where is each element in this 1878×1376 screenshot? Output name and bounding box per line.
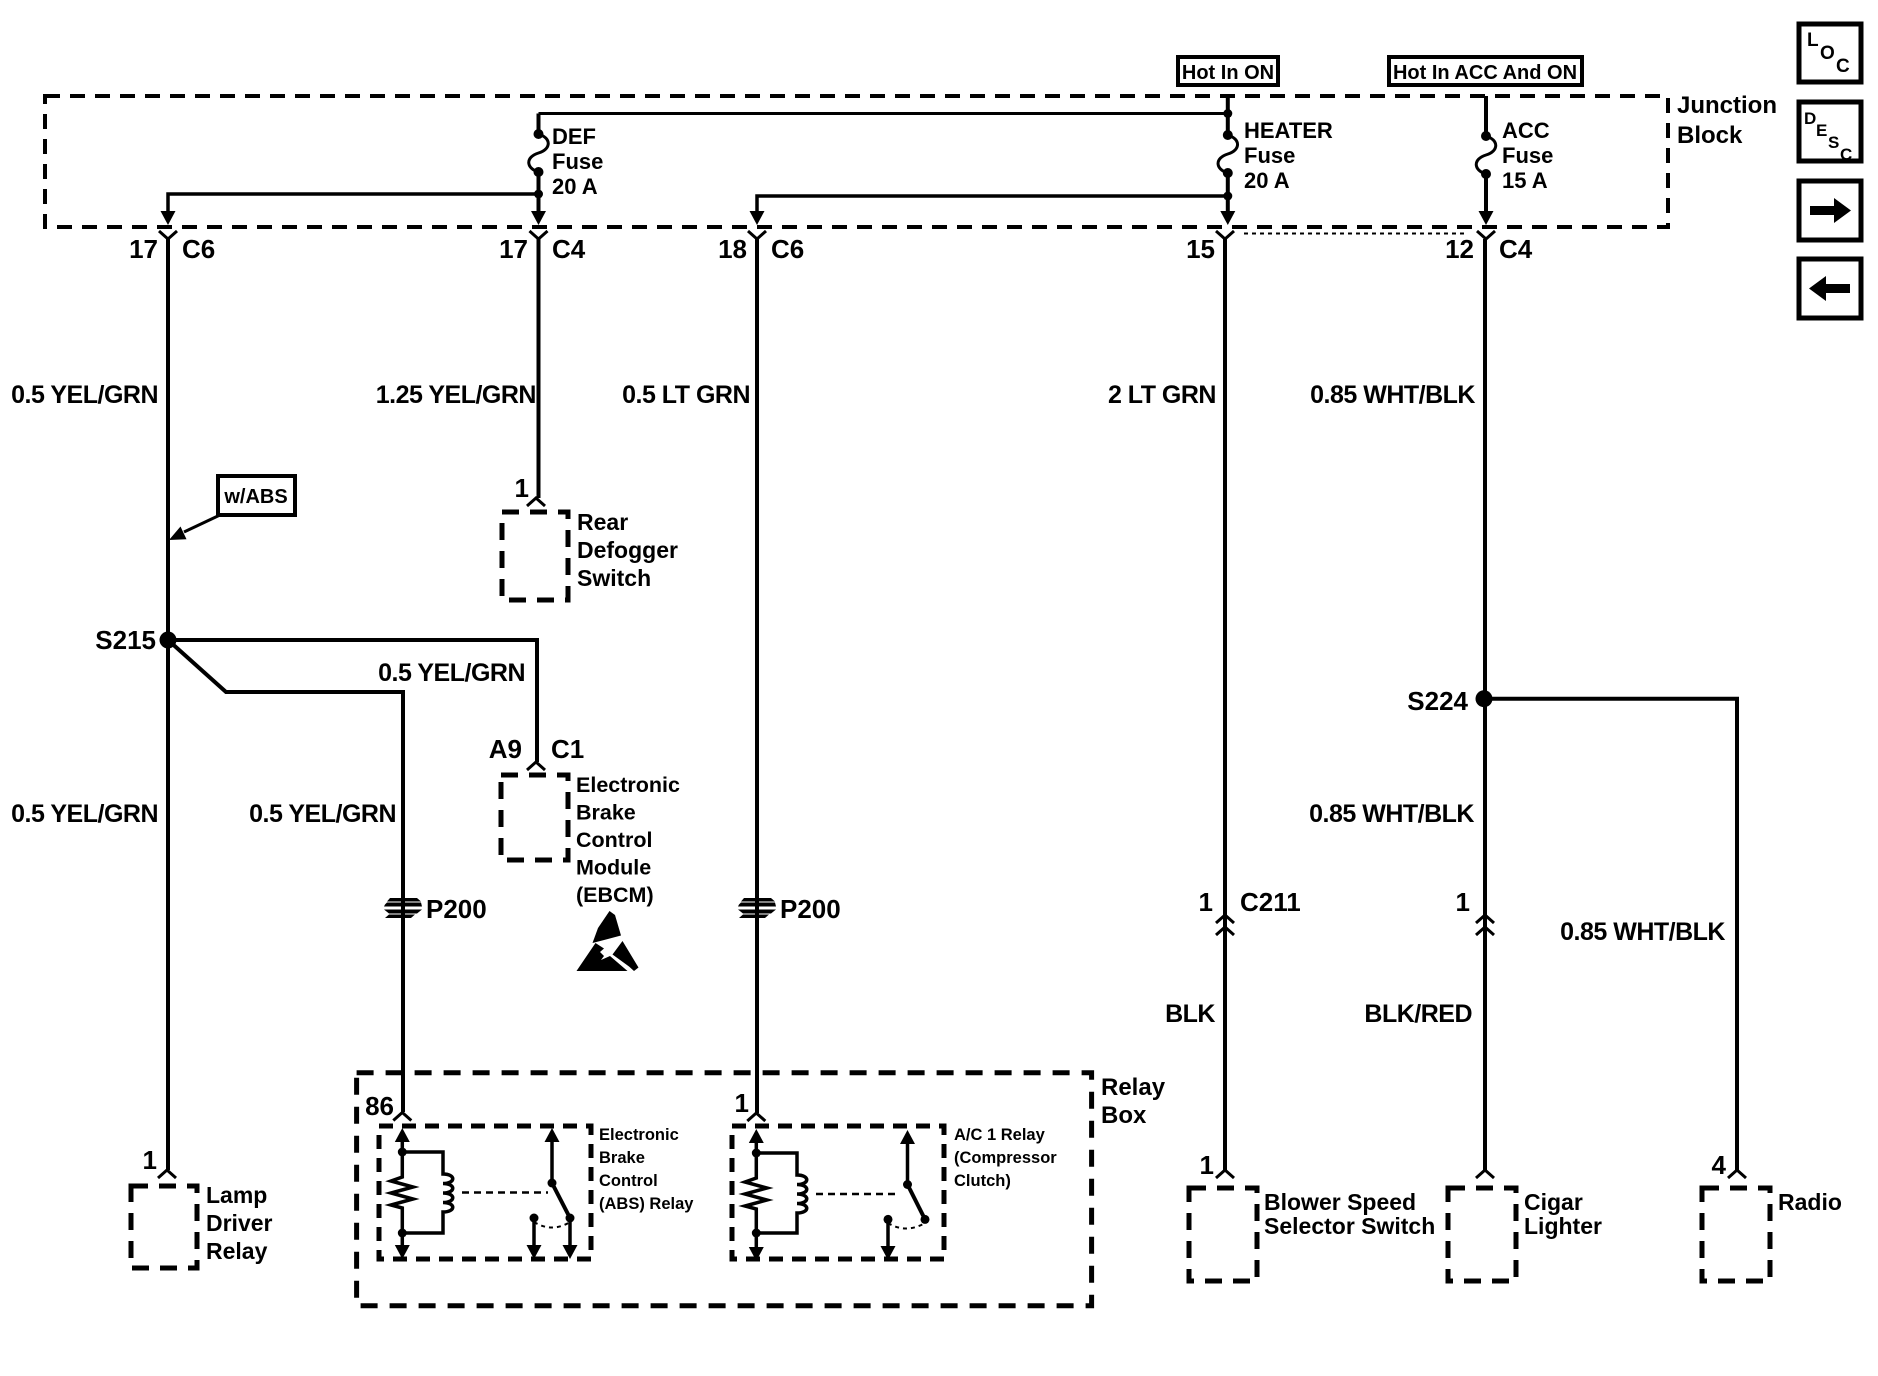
svg-text:0.85 WHT/BLK: 0.85 WHT/BLK — [1309, 800, 1474, 828]
icon LOC — [1799, 24, 1861, 82]
svg-text:0.85 WHT/BLK: 0.85 WHT/BLK — [1560, 918, 1725, 946]
icon arrow right — [1799, 181, 1861, 240]
svg-text:1: 1 — [735, 1088, 749, 1118]
ABS relay inner box — [379, 1126, 591, 1259]
w/ABS callout — [169, 476, 295, 540]
svg-text:C: C — [1836, 56, 1850, 77]
node ABS coil top — [398, 1148, 407, 1157]
wire ACC drop — [1484, 96, 1488, 137]
svg-text:S215: S215 — [95, 625, 156, 655]
svg-text:15: 15 — [1186, 234, 1215, 264]
connector 1 lamp driver relay — [158, 1170, 176, 1178]
svg-text:ACC: ACC — [1502, 118, 1550, 143]
connector 1 rear defogger — [527, 498, 545, 506]
svg-text:1: 1 — [1199, 887, 1213, 917]
connector cigar lighter — [1476, 1170, 1494, 1178]
svg-text:Junction: Junction — [1677, 92, 1777, 119]
svg-text:20 A: 20 A — [552, 174, 598, 199]
ABS right contact arrow — [568, 1218, 572, 1245]
hot in on tag — [1178, 57, 1278, 85]
svg-text:C6: C6 — [771, 234, 804, 264]
connector 86 — [393, 1113, 411, 1121]
svg-text:C4: C4 — [1499, 234, 1533, 264]
svg-text:E: E — [1816, 121, 1827, 140]
connector 1 inline cigar — [1476, 915, 1494, 935]
cigar lighter box — [1448, 1188, 1516, 1281]
svg-text:A9: A9 — [489, 734, 522, 764]
svg-text:C: C — [1840, 145, 1852, 164]
svg-text:Module: Module — [576, 856, 651, 880]
ABS left contact arrow — [532, 1218, 536, 1245]
svg-text:0.5 YEL/GRN: 0.5 YEL/GRN — [11, 381, 158, 409]
ABS switch blade — [552, 1183, 570, 1218]
svg-text:Block: Block — [1677, 122, 1743, 149]
connector 1 AC relay — [747, 1113, 765, 1121]
svg-text:Electronic: Electronic — [599, 1126, 679, 1144]
fuse ACC 15A — [1476, 131, 1496, 179]
grommet P200 left — [384, 898, 422, 918]
arrow ACC out — [1479, 211, 1494, 225]
svg-text:C211: C211 — [1240, 887, 1301, 917]
svg-text:17: 17 — [129, 234, 158, 264]
radio box — [1702, 1188, 1770, 1281]
wire ACC below fuse — [1484, 174, 1488, 213]
node ABS left contact — [530, 1214, 539, 1223]
fuse DEF 20A — [529, 129, 549, 177]
AC switch common arrow — [900, 1130, 915, 1144]
wire W1 lower — [166, 640, 170, 1170]
svg-text:0.85 WHT/BLK: 0.85 WHT/BLK — [1310, 381, 1475, 409]
wire W3 lower — [755, 239, 759, 1113]
node AC switch pivot — [903, 1180, 912, 1189]
node AC left contact — [884, 1215, 893, 1224]
svg-text:Brake: Brake — [599, 1149, 645, 1167]
wire S215 to EBCM branch — [168, 640, 537, 762]
wire DEF feed (top horizontal) — [539, 112, 1228, 115]
svg-text:0.5 YEL/GRN: 0.5 YEL/GRN — [11, 800, 158, 828]
svg-text:(EBCM): (EBCM) — [576, 883, 654, 907]
svg-text:Switch: Switch — [577, 565, 651, 591]
arrow HEATER out — [1220, 211, 1235, 225]
svg-text:Fuse: Fuse — [1244, 143, 1295, 168]
icon arrow left — [1799, 259, 1861, 318]
svg-text:Electronic: Electronic — [576, 773, 680, 797]
wire W2 to rear defogger — [537, 239, 541, 498]
svg-text:Clutch): Clutch) — [954, 1172, 1011, 1190]
ESD symbol — [577, 911, 639, 971]
coil ABS — [402, 1152, 452, 1233]
AC relay inner box — [732, 1126, 944, 1259]
junction block — [45, 96, 1668, 227]
wire W1 upper — [166, 239, 170, 640]
wire DEF below fuse — [537, 172, 541, 213]
rear defogger switch — [502, 512, 568, 600]
svg-text:1: 1 — [1456, 887, 1470, 917]
svg-text:P200: P200 — [780, 894, 841, 924]
icon DESC — [1799, 102, 1861, 164]
svg-text:0.5 YEL/GRN: 0.5 YEL/GRN — [378, 659, 525, 687]
node S215 — [160, 632, 177, 649]
AC actuation dashed line — [816, 1193, 900, 1196]
ABS coil bottom arrow — [401, 1233, 405, 1245]
svg-text:Relay: Relay — [206, 1238, 268, 1264]
connector 1 blower — [1216, 1170, 1234, 1178]
svg-text:L: L — [1807, 30, 1819, 51]
svg-text:P200: P200 — [426, 894, 487, 924]
svg-text:Brake: Brake — [576, 801, 636, 825]
node AC coil top — [752, 1149, 761, 1158]
svg-text:1.25 YEL/GRN: 1.25 YEL/GRN — [376, 381, 536, 409]
node DEF junction — [534, 190, 543, 199]
connector 17 C4 — [530, 231, 548, 239]
relay box — [357, 1073, 1092, 1306]
svg-text:(Compressor: (Compressor — [954, 1149, 1057, 1167]
node S224 — [1476, 690, 1493, 707]
arrow W3 to C6 — [750, 211, 765, 225]
svg-text:S: S — [1828, 133, 1839, 152]
svg-text:Defogger: Defogger — [577, 537, 678, 563]
lamp driver relay box — [131, 1186, 197, 1268]
node DEF feed tap — [1223, 109, 1232, 118]
svg-text:w/ABS: w/ABS — [223, 486, 287, 508]
svg-text:Selector Switch: Selector Switch — [1264, 1213, 1435, 1239]
node AC blade end — [921, 1215, 930, 1224]
node ABS blade end — [566, 1214, 575, 1223]
svg-text:DEF: DEF — [552, 124, 596, 149]
svg-text:1: 1 — [1200, 1150, 1214, 1180]
svg-text:Control: Control — [576, 828, 652, 852]
EBCM box — [501, 775, 568, 860]
svg-text:86: 86 — [365, 1091, 394, 1121]
svg-text:0.5 YEL/GRN: 0.5 YEL/GRN — [249, 800, 396, 828]
wire 15 upper — [1223, 239, 1227, 1170]
svg-text:D: D — [1804, 109, 1816, 128]
svg-text:Rear: Rear — [577, 509, 628, 535]
svg-text:A/C 1 Relay: A/C 1 Relay — [954, 1126, 1046, 1144]
svg-text:Relay: Relay — [1101, 1074, 1166, 1101]
wire W1 feed — [168, 194, 539, 213]
svg-text:Hot In ON: Hot In ON — [1182, 62, 1274, 84]
wire DEF fuse drop — [537, 114, 541, 136]
svg-text:2 LT GRN: 2 LT GRN — [1108, 381, 1216, 409]
svg-text:Fuse: Fuse — [1502, 143, 1553, 168]
AC coil bottom arrow — [755, 1233, 759, 1247]
svg-text:4: 4 — [1712, 1150, 1727, 1180]
svg-text:18: 18 — [718, 234, 747, 264]
svg-text:Control: Control — [599, 1172, 658, 1190]
hot in acc and on tag — [1389, 57, 1582, 85]
svg-text:C6: C6 — [182, 234, 215, 264]
connector 12 C4 — [1477, 231, 1495, 239]
arrow W1 to C6 — [161, 211, 176, 225]
grommet P200 right — [738, 898, 776, 918]
node ABS coil bottom — [398, 1229, 407, 1238]
svg-text:Cigar: Cigar — [1524, 1189, 1583, 1215]
coil AC — [756, 1153, 806, 1233]
svg-text:12: 12 — [1445, 234, 1474, 264]
wire HEATER drop — [1226, 96, 1230, 136]
AC switch blade — [908, 1185, 926, 1220]
svg-text:15 A: 15 A — [1502, 168, 1548, 193]
ABS switch common arrow — [545, 1128, 560, 1142]
arrow DEF to C4 — [531, 211, 546, 225]
svg-text:17: 17 — [499, 234, 528, 264]
svg-text:C4: C4 — [552, 234, 586, 264]
svg-text:0.5 LT GRN: 0.5 LT GRN — [622, 381, 750, 409]
blower speed selector switch box — [1189, 1188, 1257, 1281]
wire 12 upper — [1483, 239, 1487, 1170]
svg-text:1: 1 — [143, 1145, 157, 1175]
svg-text:Radio: Radio — [1778, 1189, 1842, 1215]
connector 18 C6 — [748, 231, 766, 239]
connector C4 line — [1244, 233, 1467, 235]
AC relay coil terminal arrow — [749, 1129, 764, 1143]
connector 17 C6 — [159, 231, 177, 239]
wire HEATER below fuse — [1226, 173, 1230, 213]
svg-text:Lighter: Lighter — [1524, 1213, 1602, 1239]
resistor ABS — [391, 1152, 413, 1233]
svg-text:Blower Speed: Blower Speed — [1264, 1189, 1416, 1215]
svg-text:20 A: 20 A — [1244, 168, 1290, 193]
node HEATER junction — [1223, 192, 1232, 201]
wire S224 branch — [1484, 699, 1737, 1170]
AC contact arc — [888, 1223, 925, 1229]
svg-text:Fuse: Fuse — [552, 149, 603, 174]
connector 15 — [1216, 231, 1234, 239]
svg-text:Lamp: Lamp — [206, 1182, 267, 1208]
resistor AC — [745, 1153, 767, 1233]
ABS actuation dashed line — [462, 1191, 548, 1194]
fuse HEATER 20A — [1218, 130, 1238, 178]
svg-text:O: O — [1820, 43, 1835, 64]
connector A9 C1 — [527, 762, 545, 770]
svg-text:BLK/RED: BLK/RED — [1364, 1000, 1472, 1028]
svg-text:HEATER: HEATER — [1244, 118, 1333, 143]
wire W3 feed — [757, 196, 1228, 213]
connector 4 radio — [1728, 1170, 1746, 1178]
svg-text:Driver: Driver — [206, 1210, 273, 1236]
wire S215 diagonal branch — [168, 640, 403, 1112]
svg-text:Box: Box — [1101, 1102, 1147, 1129]
svg-text:1: 1 — [515, 473, 529, 503]
svg-text:S224: S224 — [1407, 686, 1468, 716]
svg-text:C1: C1 — [551, 734, 584, 764]
svg-text:Hot In ACC And ON: Hot In ACC And ON — [1393, 62, 1577, 84]
node ABS switch pivot — [548, 1179, 557, 1188]
ABS relay coil terminal arrow — [395, 1128, 410, 1142]
AC left contact arrow — [886, 1219, 890, 1246]
svg-text:BLK: BLK — [1165, 1000, 1215, 1028]
connector C211 — [1216, 915, 1234, 935]
svg-text:(ABS) Relay: (ABS) Relay — [599, 1195, 694, 1213]
node AC coil bottom — [752, 1229, 761, 1238]
ABS contact arc — [534, 1222, 570, 1228]
